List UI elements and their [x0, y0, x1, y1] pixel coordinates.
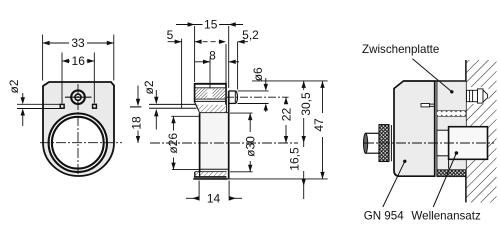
horizontal centerline [40, 142, 122, 144]
dimension 33 [43, 35, 114, 81]
svg-text:ø2: ø2 [142, 80, 156, 94]
svg-text:8: 8 [209, 49, 216, 63]
top hole target [71, 90, 85, 104]
body block [200, 113, 229, 172]
svg-text:GN 954: GN 954 [364, 210, 405, 223]
svg-text:ø30: ø30 [243, 136, 257, 157]
dim 22 [285, 97, 287, 143]
svg-text:16,5: 16,5 [288, 147, 302, 171]
dim d26 [171, 116, 199, 169]
collar line [390, 125, 392, 161]
leader GN 954 [383, 161, 405, 207]
dim 5,2 [226, 42, 248, 90]
stud axis centerline [226, 96, 289, 98]
dim d2 middle callout [155, 90, 157, 130]
dim d6 [238, 78, 269, 112]
shaft neck through plate [437, 130, 449, 156]
svg-text:15: 15 [204, 18, 218, 32]
shoulder step line [448, 159, 450, 169]
dimension d2 left callout [17, 93, 62, 126]
svg-text:16: 16 [72, 54, 86, 68]
wall stud hole [466, 87, 489, 104]
tube wall hatch with d2 hole gap [195, 88, 207, 98]
svg-text:Zwischenplatte: Zwischenplatte [362, 43, 439, 56]
svg-text:5,2: 5,2 [242, 28, 259, 42]
wall shaft hole [466, 127, 488, 160]
knurled wheel [379, 125, 389, 162]
plate bottom edge [193, 178, 227, 180]
d2 hole axis ext [209, 59, 211, 88]
shaft Wellenansatz [449, 127, 488, 160]
svg-text:14: 14 [207, 192, 221, 206]
dim 14 [186, 181, 242, 201]
tube top [195, 83, 226, 113]
shaft stub left [365, 133, 379, 153]
wall edge [465, 60, 467, 203]
elastomer strip top [437, 110, 466, 116]
gray column between knob and wall [435, 81, 466, 177]
stud screw in wall [467, 89, 488, 103]
svg-text:ø2: ø2 [7, 79, 21, 93]
svg-text:18: 18 [130, 116, 144, 130]
body top edge [200, 112, 229, 114]
dim 16,5 [303, 143, 305, 199]
bottom ext line long [228, 178, 328, 180]
svg-text:Wellenansatz: Wellenansatz [411, 210, 481, 223]
dim 8 [195, 61, 239, 63]
svg-text:30,5: 30,5 [299, 92, 313, 116]
leader Wellenansatz [433, 153, 456, 207]
svg-text:22: 22 [279, 108, 293, 122]
d2 front pin [149, 104, 196, 108]
inner ring circle d26 [52, 117, 104, 169]
svg-text:5: 5 [167, 28, 174, 42]
flange hatch band [197, 105, 226, 113]
flange chamfer [195, 103, 200, 113]
plate body [43, 82, 114, 176]
elastomer strip bottom [437, 170, 466, 177]
dim 47 [322, 81, 324, 179]
dimension 16 [62, 53, 94, 104]
bottom flange hatch strip [195, 172, 227, 177]
vertical centerline [77, 84, 79, 177]
dim 15 [176, 25, 243, 89]
dim d30 [230, 113, 253, 172]
small hole left d2 [60, 104, 64, 108]
dim 18 [130, 86, 141, 144]
dim 30,5 [252, 81, 328, 143]
leader Zwischenplatte [412, 59, 451, 92]
axis centerline [364, 142, 494, 144]
knob body GN 954 [394, 81, 435, 176]
main centerline middle view [150, 142, 298, 144]
spring pin detail [421, 104, 435, 107]
outer ring circle d30 [49, 114, 107, 172]
svg-text:47: 47 [312, 118, 326, 132]
svg-text:33: 33 [71, 36, 85, 50]
d6 stud right [229, 91, 238, 103]
svg-text:ø6: ø6 [251, 67, 265, 81]
wall hatched [466, 60, 497, 203]
svg-text:ø26: ø26 [166, 133, 180, 154]
small hole right d2 [93, 104, 97, 108]
dim 5 [168, 39, 226, 109]
